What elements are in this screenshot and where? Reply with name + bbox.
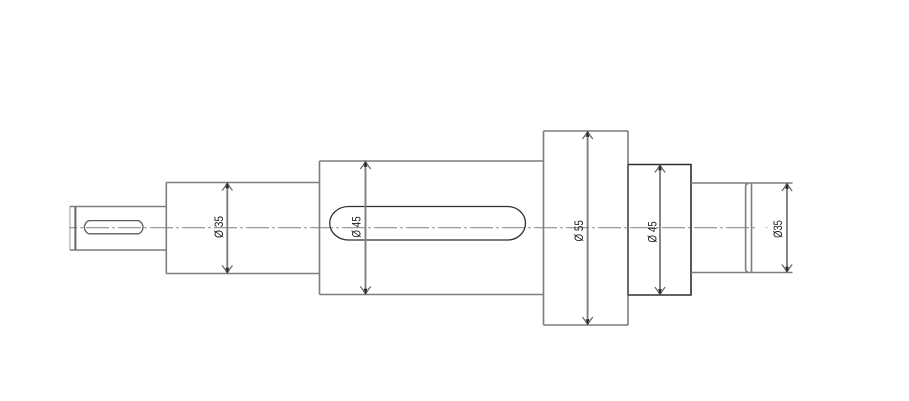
shaft stub left end face <box>69 206 71 250</box>
shaft section O45 middle: step edge <box>319 161 321 295</box>
chamfer line left stub <box>74 207 76 250</box>
keyway slot big (middle section) <box>330 207 526 241</box>
shaft section O35 left: top and bottom edges <box>166 183 319 274</box>
shaft section O45 middle: top and bottom edges <box>320 161 544 295</box>
dimension O35 left: arrow up <box>222 183 232 191</box>
shaft section O35 right: top and bottom edges with extension lines <box>691 183 793 273</box>
keyway slot small (left stub) <box>84 221 143 234</box>
svg-text:Ø 45: Ø 45 <box>647 221 660 242</box>
svg-text:Ø 55: Ø 55 <box>573 220 586 241</box>
dimension O45 middle: line <box>365 163 367 294</box>
dimension O55: line <box>587 133 589 324</box>
centerline faint dot right end <box>765 227 768 229</box>
svg-text:Ø35: Ø35 <box>772 220 785 238</box>
dimension O45 right: arrow up <box>655 165 665 173</box>
dimension O55: arrow up <box>582 131 592 139</box>
shaft section O35 left: step edge <box>165 183 167 274</box>
svg-text:Ø 35: Ø 35 <box>213 216 226 238</box>
shaft stub outline <box>70 207 166 251</box>
shaft section O45 right: left edge overlap <box>627 165 629 296</box>
shaft section O45 right (highlighted box) <box>628 165 691 296</box>
svg-text:Ø 45: Ø 45 <box>351 216 364 237</box>
dimension O35 left: line <box>226 184 228 272</box>
dimension O35 right: arrow down <box>782 265 792 273</box>
dimension O45 right: line <box>659 166 661 294</box>
centerline <box>69 227 758 229</box>
dimension O45 middle: arrow down <box>360 287 370 295</box>
dimension O55: arrow down <box>582 317 592 325</box>
shaft section O35 right: end face <box>751 183 753 273</box>
dimension O35 right: arrow up <box>782 183 792 191</box>
shaft section O55: left edge <box>543 131 545 325</box>
shaft section O55: right edge <box>627 131 629 325</box>
shaft section O55: top and bottom edges <box>544 131 629 325</box>
dimension O45 middle: arrow up <box>360 161 370 169</box>
dimension O35 left: arrow down <box>222 266 232 274</box>
dimension O45 right: arrow down <box>655 287 665 295</box>
chamfer line right end <box>746 183 749 272</box>
dimension O35 right: line <box>786 185 788 272</box>
